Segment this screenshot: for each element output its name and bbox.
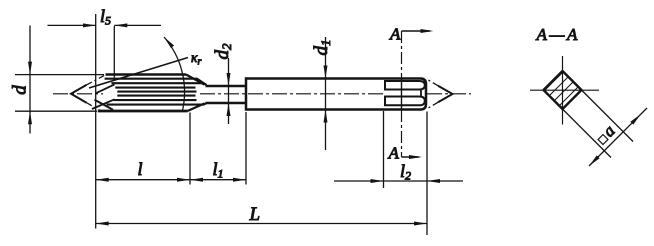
svg-text:l: l (138, 159, 143, 179)
extension line l right (189, 113, 191, 185)
dimension L line (96, 223, 427, 225)
flute top edge (106, 73, 187, 76)
arrow a ne (630, 113, 642, 125)
arrow d bottom (28, 111, 32, 124)
tang lower flat (385, 97, 425, 106)
dimension d2 line (228, 58, 230, 124)
arrow d top (28, 62, 32, 75)
flute bottom-left chamfer (95, 100, 114, 110)
flute line 4 (117, 91, 196, 93)
left cone apex V (71, 85, 87, 103)
arrow l2 left (371, 179, 384, 183)
arrow d1 top (324, 66, 328, 79)
dimension d1 line (325, 37, 327, 150)
flute bottom-right chamfer (188, 103, 205, 111)
svg-text:A: A (388, 144, 400, 163)
dimension l line (96, 179, 190, 181)
dimension d line (29, 26, 31, 134)
centerline axis middle (200, 93, 384, 95)
label square a (592, 121, 618, 147)
dimension l1 line (190, 179, 246, 181)
flute line 7 (107, 103, 207, 104)
flute line 1 (105, 79, 207, 85)
left cone dash-dot top (87, 75, 107, 85)
centerline axis right (427, 93, 471, 95)
section centerline vertical (562, 56, 564, 125)
arrow kappa arc (162, 36, 174, 48)
section line A-A upper (401, 31, 403, 78)
tooth face line top-left (95, 84, 114, 93)
arrow section bottom (409, 155, 422, 159)
extension line l5 right (113, 26, 115, 78)
section dimension line a (589, 108, 647, 166)
section line A-A lower (401, 110, 403, 157)
arrow section top (421, 29, 434, 33)
right cone apex V (438, 86, 453, 103)
svg-text:A: A (389, 25, 401, 44)
dimension l5 line left (48, 24, 97, 26)
arrow a sw (588, 155, 600, 167)
kappa-r angle arc (164, 37, 185, 111)
arrow l5 left (83, 23, 96, 27)
arrow l right (177, 178, 190, 182)
tang upper flat (385, 81, 425, 90)
dimension l5 line right (114, 24, 161, 26)
tooth face line bottom-left (92, 99, 115, 109)
right cone dash-dot bottom (426, 102, 438, 109)
section top arm (402, 30, 431, 32)
arrow l left (96, 178, 109, 182)
flute line 5 (117, 95, 195, 97)
extension line d bottom (15, 110, 97, 112)
extension line L right (426, 112, 428, 236)
svg-text:L: L (249, 204, 261, 225)
svg-text:A—A: A—A (536, 25, 580, 44)
tang end connector (420, 90, 422, 97)
section centerline horizontal (530, 89, 599, 91)
shank outline (246, 79, 426, 110)
arrow L left (96, 222, 109, 226)
neck bottom edge (206, 102, 247, 104)
flute bottom edge (98, 110, 188, 113)
arrow l5 right (114, 23, 127, 27)
flute line 6 (113, 99, 196, 101)
flute top-right chamfer (186, 75, 205, 85)
arrow l1 left (190, 178, 203, 182)
arrow d2 top (227, 73, 231, 86)
arrow L right (414, 222, 427, 226)
section ext line from bottom corner (563, 109, 612, 158)
extension line l2 left (383, 111, 385, 188)
arrow l2 right (427, 179, 440, 183)
neck top edge (206, 85, 247, 87)
arrow l1 right (233, 178, 246, 182)
centerline axis (53, 93, 103, 95)
dimension l2 line (334, 180, 463, 182)
extension line l1 right (245, 112, 247, 185)
flute line 3 (115, 87, 195, 89)
svg-text:d: d (10, 85, 31, 95)
flute line 2 (111, 83, 206, 85)
left cone dash-dot bottom (87, 103, 101, 111)
kappa-r chamfer leader line (89, 58, 188, 89)
right cone dash-dot top (426, 79, 438, 86)
extension line d top (15, 74, 104, 76)
arrow d2 bottom (227, 103, 231, 116)
section bottom arm (402, 156, 420, 158)
section square outline (544, 71, 582, 109)
section line A-A through part (401, 78, 403, 110)
arrow d1 bottom (324, 110, 328, 123)
section ext line from right corner (582, 90, 634, 142)
extension line left long (95, 14, 97, 229)
